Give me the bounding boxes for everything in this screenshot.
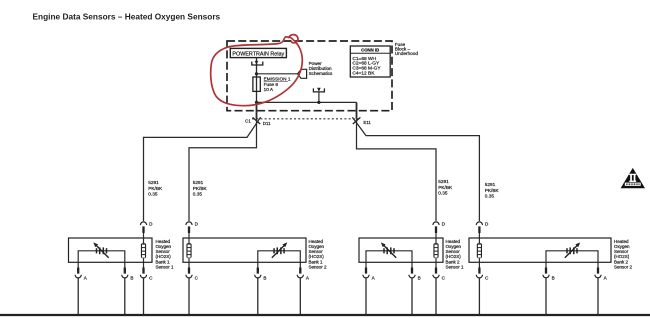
label D11 — [263, 121, 271, 126]
HO2S B2S1 sensing element — [366, 242, 412, 262]
connector terminal, pin C of HO2S B1S1 — [140, 262, 153, 280]
wire: drop to connector C1 pin E11 — [356, 102, 358, 118]
CONN ID table — [350, 46, 390, 77]
svg-text:5291: 5291 — [485, 182, 496, 187]
wire: pin B of HO2S B2S2 to ground bus — [545, 278, 547, 314]
label E11 — [363, 120, 371, 125]
connector terminal, pin D of HO2S B2S1 — [433, 222, 446, 238]
wire: D11 branch to HO2S bank1 sensor1 pin D — [144, 117, 261, 221]
svg-text:5291: 5291 — [193, 180, 204, 185]
wire: pin C of HO2S B1S2 to ground bus — [188, 278, 190, 314]
wire: pin C of HO2S B2S1 to ground bus — [435, 278, 437, 314]
label: HO2S Bank 1 Sensor 2 — [309, 239, 328, 270]
wire label 5291 PK/BK 0.35 (bank1 sensor1) — [148, 180, 163, 196]
connector terminal, pin C of HO2S B1S2 — [186, 262, 199, 280]
red hand-drawn annotation circle around POWERTRAIN Relay — [211, 35, 303, 106]
svg-text:0.35: 0.35 — [485, 193, 495, 198]
wire label 5291 PK/BK 0.35 (bank2 sensor2) — [485, 182, 500, 198]
wire: pin B of HO2S B1S1 to ground bus — [124, 278, 126, 314]
connector terminal, pin A of HO2S B1S1 — [75, 262, 88, 280]
connector C1 face (dotted line) — [252, 118, 359, 120]
connector terminal, pin D of HO2S B1S2 — [186, 222, 199, 238]
svg-text:C1: C1 — [245, 119, 251, 124]
wire: relay to fuse (through fuse block terminal) — [256, 58, 258, 103]
wire: pin B of HO2S B1S2 to ground bus — [257, 278, 259, 314]
connector terminal, pin C of HO2S B2S1 — [433, 262, 446, 280]
wire: pin C of HO2S B1S1 to ground bus — [143, 278, 145, 314]
svg-text:PK/BK: PK/BK — [148, 186, 163, 191]
warning triangle icon — [621, 168, 645, 188]
svg-text:B: B — [263, 276, 266, 281]
wire: pin A of HO2S B1S1 to ground bus — [77, 278, 79, 314]
HO2S B2S2 heater element — [477, 238, 482, 262]
svg-text:E11: E11 — [363, 120, 371, 125]
svg-text:Underhood: Underhood — [395, 51, 419, 56]
svg-text:Sensor 2: Sensor 2 — [614, 264, 633, 269]
HO2S B1S2 heater element — [186, 238, 191, 262]
relay: POWERTRAIN Relay — [230, 48, 286, 57]
junction: bus feed stub — [317, 101, 320, 104]
svg-text:B: B — [552, 276, 555, 281]
svg-text:PK/BK: PK/BK — [485, 188, 500, 193]
HO2S B1S1 sensing element — [78, 242, 125, 262]
wire: pin C of HO2S B2S2 to ground bus — [478, 278, 480, 314]
svg-text:0.35: 0.35 — [148, 191, 158, 196]
wire: pin A of HO2S B1S2 to ground bus — [299, 278, 301, 314]
connector terminal, pin B of HO2S B2S1 — [409, 262, 421, 280]
svg-text:PK/BK: PK/BK — [193, 186, 208, 191]
svg-text:Engine Data Sensors – Heated O: Engine Data Sensors – Heated Oxygen Sens… — [33, 12, 221, 22]
connector terminal, pin A of HO2S B1S2 — [297, 262, 310, 280]
svg-text:Schematics: Schematics — [309, 71, 333, 76]
wire: drop to connector C1 pin D11 — [256, 102, 258, 118]
wire: D11 branch to HO2S bank1 sensor2 pin D — [189, 119, 257, 221]
label: HO2S Bank 1 Sensor 1 — [156, 239, 175, 270]
wire: pin B of HO2S B2S1 to ground bus — [411, 278, 413, 314]
wire: internal fuse block bus — [257, 101, 357, 103]
sensor: Heated Oxygen Sensor (HO2S) Bank 2 Sensor 1 — [359, 238, 443, 262]
connector terminal, pin D of HO2S B1S1 — [140, 222, 153, 238]
fuse block terminal symbol (bus feed) — [313, 88, 324, 103]
svg-text:0.35: 0.35 — [193, 191, 203, 196]
wire label 5291 PK/BK 0.35 (bank1 sensor2) — [193, 180, 208, 196]
HO2S B1S1 heater element — [141, 238, 146, 262]
connector terminal, pin B of HO2S B2S2 — [543, 262, 555, 280]
connector pass-through symbol, pin E11 — [353, 117, 361, 124]
svg-text:Sensor 1: Sensor 1 — [446, 264, 465, 269]
HO2S B1S2 sensing element — [258, 242, 301, 262]
connector terminal, pin B of HO2S B1S2 — [255, 262, 267, 280]
svg-text:C4=12 BK: C4=12 BK — [352, 71, 375, 77]
sensor: Heated Oxygen Sensor (HO2S) Bank 1 Sensor 2 — [183, 238, 306, 262]
wire label 5291 PK/BK 0.35 (bank2 sensor1) — [438, 179, 453, 195]
wire: E11 branch to HO2S bank2 sensor2 pin D — [352, 117, 479, 221]
wire: pin A of HO2S B2S1 to ground bus — [365, 278, 367, 314]
svg-text:PK/BK: PK/BK — [438, 185, 453, 190]
ground bus line — [0, 314, 650, 316]
title: Engine Data Sensors - Heated Oxygen Sensors — [33, 12, 221, 22]
connector terminal, pin A of HO2S B2S1 — [363, 262, 376, 280]
svg-text:POWERTRAIN Relay: POWERTRAIN Relay — [232, 51, 284, 57]
svg-text:EMISSION 1: EMISSION 1 — [264, 76, 291, 81]
svg-text:Sensor 1: Sensor 1 — [156, 264, 175, 269]
svg-text:Sensor 2: Sensor 2 — [309, 264, 328, 269]
svg-text:B: B — [130, 276, 133, 281]
svg-text:CONN ID: CONN ID — [361, 48, 379, 53]
wire: pin A of HO2S B2S2 to ground bus — [597, 278, 599, 314]
off-page reference flag: Power Distribution Schematics — [298, 61, 333, 78]
sensor: Heated Oxygen Sensor (HO2S) Bank 2 Sensor 2 — [469, 238, 611, 262]
svg-text:0.35: 0.35 — [438, 190, 448, 195]
fuse: EMISSION 1 Fuse 8 10 A — [253, 76, 291, 92]
HO2S B2S2 sensing element — [546, 242, 598, 262]
svg-text:5291: 5291 — [148, 180, 159, 185]
connector terminal, pin D of HO2S B2S2 — [476, 222, 489, 238]
svg-text:5291: 5291 — [438, 179, 449, 184]
svg-text:B: B — [418, 276, 421, 281]
connector terminal, pin B of HO2S B1S1 — [122, 262, 134, 280]
junction: fuse output onto internal bus — [255, 101, 258, 104]
HO2S B2S1 heater element — [433, 238, 438, 262]
label: HO2S Bank 2 Sensor 2 — [614, 239, 633, 270]
label: HO2S Bank 2 Sensor 1 — [446, 239, 465, 270]
wire: E11 branch to HO2S bank2 sensor1 pin D — [357, 119, 437, 221]
connector pass-through symbol, pin D11 — [253, 117, 261, 124]
svg-text:10 A: 10 A — [264, 87, 274, 92]
svg-text:D11: D11 — [263, 121, 271, 126]
connector terminal, pin A of HO2S B2S2 — [595, 262, 608, 280]
fuse block terminal symbol (relay output) — [252, 61, 263, 65]
fuse block - underhood dashed outline — [227, 41, 392, 111]
label C1 — [245, 119, 251, 124]
wire: tap to Power Distribution Schematics reference — [257, 73, 298, 75]
label: Fuse Block - Underhood — [395, 42, 419, 56]
junction: relay output / power distribution tap — [255, 72, 258, 75]
connector terminal, pin C of HO2S B2S2 — [476, 262, 489, 280]
sensor: Heated Oxygen Sensor (HO2S) Bank 1 Sensor 1 — [69, 238, 153, 262]
